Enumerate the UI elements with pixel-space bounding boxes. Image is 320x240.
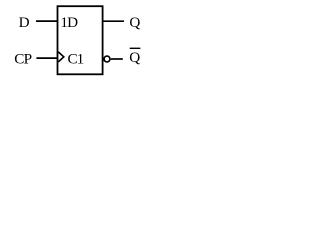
inversion bubble bbox=[104, 56, 110, 62]
flip-flop U1 body bbox=[58, 6, 103, 74]
wire Q-bar output bbox=[111, 58, 123, 60]
svg-text:D: D bbox=[19, 14, 30, 31]
svg-text:1D: 1D bbox=[60, 14, 78, 31]
svg-text:CP: CP bbox=[14, 51, 31, 68]
wire Q output bbox=[103, 20, 124, 22]
wire D input bbox=[36, 20, 58, 22]
wire CP input bbox=[36, 57, 57, 59]
clock triangle bbox=[58, 52, 64, 62]
Q-bar overline bbox=[130, 47, 141, 49]
svg-text:Q: Q bbox=[129, 14, 140, 31]
svg-text:Q: Q bbox=[129, 49, 140, 66]
svg-text:C1: C1 bbox=[68, 51, 84, 68]
